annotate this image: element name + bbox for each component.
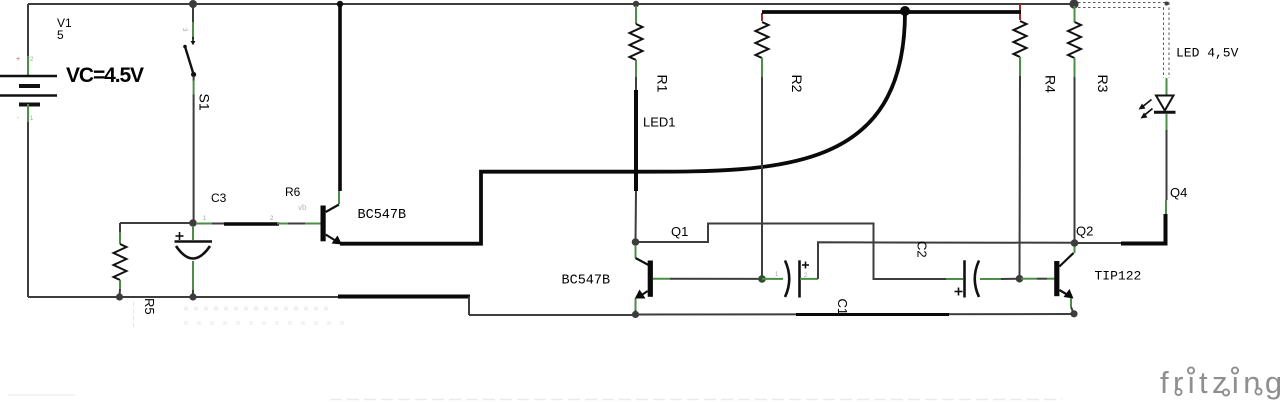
junction R2 C1 Q1 base node — [758, 275, 766, 283]
wire Q2 collector to Q4 thick — [1075, 130, 1167, 244]
svg-text:vb: vb — [298, 203, 307, 212]
wire Q3 emitter thick path — [340, 12, 905, 244]
transistor Q3 BC547B — [321, 205, 343, 245]
junction bottom rail at Q2 emitter — [1070, 310, 1077, 317]
wire R1 top lead — [635, 6, 637, 24]
wire Q1 collector net to C2 — [636, 224, 947, 280]
capacitor C1 plus sign — [802, 262, 809, 269]
transistor Q2 TIP122 — [1054, 253, 1073, 299]
svg-text:LED1: LED1 — [643, 115, 676, 130]
capacitor C1 — [785, 260, 800, 297]
svg-text:Q2: Q2 — [1076, 224, 1093, 239]
wire bottom rail right darker overlay — [796, 313, 949, 316]
wire bottom rail left — [28, 296, 340, 298]
wire Q1 base lead — [653, 278, 762, 280]
svg-text:TIP122: TIP122 — [1095, 269, 1142, 284]
junction top rail at switch — [189, 0, 197, 8]
capacitor C3 plus sign — [176, 232, 184, 240]
wire junction to R5 — [120, 223, 193, 244]
wire C3 top lead — [192, 226, 194, 240]
ratsnest dashed wires — [1078, 3, 1169, 79]
LED emission arrow 2 — [1141, 109, 1153, 119]
svg-text:R4: R4 — [1043, 75, 1059, 93]
wire LED1 to Q1 collector node — [635, 191, 638, 242]
LED diode symbol — [1154, 96, 1176, 113]
wire Q3 collector green pin — [338, 191, 340, 204]
wire R2 bottom lead — [761, 58, 763, 279]
junction R4 C2 Q2 base node — [1016, 275, 1024, 283]
wire R3 bottom lead — [1074, 58, 1076, 243]
wire C1 left lead — [762, 278, 783, 280]
junction R5 at bottom rail — [116, 293, 123, 300]
svg-text:C3: C3 — [211, 191, 227, 205]
resistor R5 — [114, 244, 127, 280]
svg-text:C1: C1 — [835, 299, 850, 316]
junction top rail at R1 — [633, 1, 639, 7]
svg-text:Q1: Q1 — [671, 224, 688, 239]
wire Q2 emitter lead — [1071, 298, 1074, 314]
wire R5 bottom lead — [119, 280, 122, 297]
LED1 thick wire — [634, 90, 638, 191]
wire R4 bottom lead — [1019, 57, 1022, 279]
junction bezier at thick top wire — [900, 6, 910, 16]
wire bottom rail middle — [469, 314, 636, 316]
switch S1 lever — [183, 45, 196, 77]
svg-text:5: 5 — [57, 28, 64, 42]
resistor R2 — [756, 22, 769, 58]
svg-text:R2: R2 — [789, 75, 805, 93]
svg-text:+: + — [16, 56, 20, 63]
wire battery negative lead — [27, 104, 29, 297]
svg-text:BC547B: BC547B — [562, 274, 611, 289]
pin label battery - pin 1 — [17, 115, 34, 122]
fritzing watermark — [1160, 365, 1280, 400]
faint guide mark below R5 — [133, 302, 135, 330]
faint grid dots row 1 — [184, 307, 330, 311]
wire bottom rail thick segment — [338, 295, 470, 299]
wire C1 to Q2 collector node — [818, 242, 1075, 279]
svg-text:C2: C2 — [915, 241, 930, 258]
wire C3 bottom lead — [192, 261, 194, 297]
wire bottom rail right — [636, 313, 1075, 316]
svg-text:R6: R6 — [285, 185, 301, 199]
resistor R1 — [630, 24, 643, 60]
junction bottom rail at Q1 emitter — [632, 311, 639, 318]
pin label battery + pin 2 — [16, 56, 34, 63]
wire switch top lead — [192, 4, 194, 39]
wire C1 right lead — [800, 278, 818, 280]
resistor R4 — [1014, 21, 1027, 57]
junction C3 at bottom rail — [189, 293, 196, 300]
capacitor C3 — [175, 242, 213, 259]
svg-text:Q4: Q4 — [1170, 185, 1187, 200]
wire R3 top lead — [1074, 6, 1076, 22]
wire R6 to Q3 base — [277, 223, 321, 225]
wire LED bottom lead — [1166, 114, 1168, 130]
faint grid dots row 2 — [184, 321, 352, 325]
junction R3 Q2 collector node — [1071, 239, 1079, 247]
resistor R3 — [1068, 22, 1081, 58]
wire battery positive lead — [27, 4, 29, 75]
junction dashed wire top — [1165, 2, 1169, 6]
wire switch bottom lead — [193, 76, 195, 223]
wire bottom rail step down — [468, 297, 470, 316]
junction Q1 collector node — [632, 238, 640, 246]
wire R1 bottom lead — [635, 60, 637, 91]
wire Q3 collector thick vertical — [338, 4, 342, 191]
faint bottom edge dashes — [330, 399, 1062, 401]
LED emission arrow 1 — [1139, 100, 1152, 110]
svg-text:R1: R1 — [655, 75, 671, 93]
battery V1 — [0, 76, 57, 105]
wire Q2 base lead — [1021, 278, 1054, 280]
svg-text:BC547B: BC547B — [358, 208, 407, 223]
wire R4 red pin — [1019, 4, 1021, 20]
wire node to R6 — [196, 223, 225, 225]
svg-text:LED 4,5V: LED 4,5V — [1176, 46, 1239, 61]
junction top rail at Q3 collector wire — [337, 1, 343, 7]
wire R2 red pin — [761, 13, 763, 21]
faint bottom left mark — [8, 394, 75, 396]
junction top rail at R3 — [1069, 0, 1078, 9]
junction node at C3 top — [189, 219, 197, 227]
capacitor C2 plus sign — [955, 288, 963, 296]
wire top rail — [28, 3, 1074, 5]
wire Q2 collector lead — [1074, 243, 1076, 253]
wire C2 left lead — [946, 278, 963, 280]
switch S1 contact dot — [191, 37, 196, 45]
capacitor C2 — [965, 260, 980, 297]
wire C2 right lead — [980, 278, 1020, 280]
svg-text:S1: S1 — [197, 94, 213, 111]
svg-text:R5: R5 — [142, 298, 157, 315]
transistor Q1 BC547B mirrored — [635, 245, 653, 315]
wire LED top lead — [1166, 78, 1168, 95]
svg-text:VC=4.5V: VC=4.5V — [66, 64, 144, 87]
svg-text:R3: R3 — [1095, 75, 1111, 93]
wire thick top segment — [762, 10, 1021, 14]
resistor R6 — [224, 222, 279, 226]
